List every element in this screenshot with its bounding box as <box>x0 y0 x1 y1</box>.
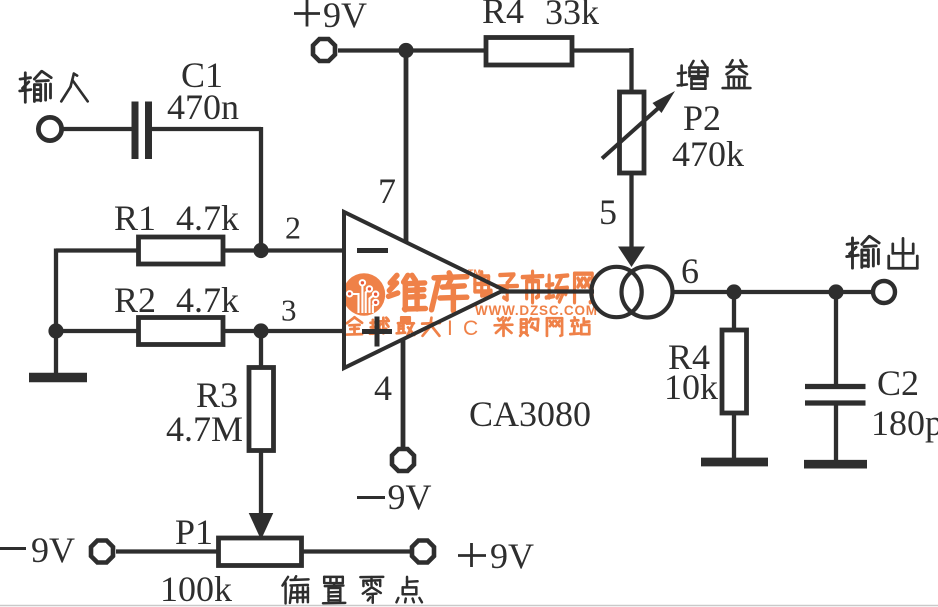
capacitor C2 <box>805 387 866 404</box>
wire to ground left <box>54 331 58 374</box>
terminal +9V top <box>313 39 335 61</box>
svg-text:470k: 470k <box>672 134 744 174</box>
wire node3 to R3 <box>259 331 263 368</box>
resistor R1 <box>139 237 224 264</box>
svg-text:4.7M: 4.7M <box>166 409 243 449</box>
svg-text:WWW.DZSC.COM: WWW.DZSC.COM <box>475 303 598 318</box>
wire P2 to mirror <box>618 173 645 267</box>
terminal -9V pin4 <box>392 449 414 471</box>
node 2 junction <box>253 243 268 258</box>
wire +9V to junction <box>338 48 406 52</box>
wire junction to R4 <box>406 48 486 52</box>
node output 1 <box>726 284 741 299</box>
resistor R4 10k <box>722 330 747 413</box>
svg-text:I: I <box>447 317 453 340</box>
label 输入 <box>20 71 88 102</box>
wire R2 to node 3 <box>223 329 261 333</box>
wire R3 to P1 arrow <box>250 451 273 539</box>
svg-text:6: 6 <box>681 251 699 291</box>
svg-text:P1: P1 <box>175 512 213 552</box>
svg-text:9V: 9V <box>490 536 534 576</box>
wire R4 to P2 <box>572 48 634 93</box>
svg-text:9V: 9V <box>31 530 75 570</box>
ground left <box>29 373 87 383</box>
svg-text:3: 3 <box>281 293 297 328</box>
resistor R3 <box>249 368 274 451</box>
wire node2 to opamp pin2 <box>261 248 345 252</box>
svg-text:4.7k: 4.7k <box>176 280 239 320</box>
label +9V top <box>294 0 367 35</box>
output mirror symbol <box>591 267 672 318</box>
svg-text:10k: 10k <box>664 367 718 407</box>
wire node to C2 <box>834 292 838 385</box>
svg-text:9V: 9V <box>388 477 432 517</box>
wire R1 left <box>56 249 139 333</box>
wire R4 to ground <box>732 413 736 458</box>
terminal -9V left <box>91 541 113 563</box>
P2 wiper arrow <box>602 91 675 159</box>
wire pin4 down <box>401 339 406 447</box>
op-amp U1 CA3080 <box>344 212 504 368</box>
ground under C2 <box>804 460 867 469</box>
wire C2 to ground <box>834 405 838 461</box>
svg-text:P2: P2 <box>683 98 721 138</box>
wire R2 left <box>56 329 139 333</box>
op-amp plus input <box>362 317 392 347</box>
bottom edge line <box>0 605 938 607</box>
svg-text:4.7k: 4.7k <box>176 198 239 238</box>
junction left <box>48 323 63 338</box>
label -9V pin4 <box>357 477 432 517</box>
wire input to C1 <box>63 127 133 131</box>
watermark logo circle <box>343 273 385 315</box>
wire node3 to opamp pin3 <box>261 329 345 333</box>
svg-text:C2: C2 <box>877 363 919 403</box>
wire mirror to output <box>672 290 872 294</box>
svg-text:2: 2 <box>285 210 301 246</box>
wire supply to pin7 <box>404 51 409 244</box>
resistor R2 <box>139 318 224 345</box>
label +9V bottom right <box>458 536 534 576</box>
terminal +9V right <box>412 541 434 563</box>
wire P1 right <box>302 549 411 553</box>
svg-text:33k: 33k <box>545 0 599 32</box>
input terminal <box>38 117 61 140</box>
svg-text:9V: 9V <box>323 0 367 35</box>
wire opamp to mirror <box>500 289 594 293</box>
svg-text:CA3080: CA3080 <box>469 394 591 434</box>
svg-text:C: C <box>463 317 478 340</box>
label -9V left <box>0 530 75 570</box>
svg-text:R1: R1 <box>114 198 156 238</box>
terminal output <box>873 281 895 303</box>
op-amp minus input <box>357 248 388 253</box>
node output 2 <box>828 284 843 299</box>
watermark slogan <box>347 317 589 340</box>
wire node to R4 10k <box>732 292 736 331</box>
svg-text:4: 4 <box>374 368 392 408</box>
resistor R4 33k <box>486 38 572 66</box>
capacitor C1 <box>135 102 149 160</box>
potentiometer P1 <box>219 538 302 566</box>
svg-text:R2: R2 <box>114 280 156 320</box>
label 偏置零点 <box>282 576 421 603</box>
node 3 junction <box>253 323 268 338</box>
label 输出 <box>847 236 918 268</box>
watermark text weiku <box>389 273 467 311</box>
svg-text:470n: 470n <box>167 87 239 127</box>
svg-text:7: 7 <box>378 171 396 211</box>
wire C1 to node 2 <box>151 127 261 252</box>
label 增益 <box>678 60 751 88</box>
wire P1 left <box>116 549 219 553</box>
svg-text:180p: 180p <box>871 403 938 443</box>
potentiometer P2 <box>620 92 645 173</box>
supply junction <box>398 43 413 58</box>
ground under R4 <box>701 458 768 467</box>
svg-text:100k: 100k <box>160 569 232 607</box>
svg-text:R4: R4 <box>482 0 524 31</box>
watermark text dzscw <box>475 272 592 303</box>
svg-text:5: 5 <box>599 192 617 232</box>
wire R1 to node 2 <box>223 248 261 252</box>
